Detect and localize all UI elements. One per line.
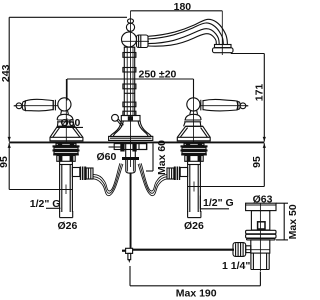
column tube (123, 47, 136, 116)
dia 60 label column base (97, 147, 125, 163)
column base bell (109, 121, 153, 140)
lift rod coupler (122, 248, 133, 263)
dimension Max 50 (276, 203, 299, 240)
svg-text:1 1/4": 1 1/4" (222, 260, 250, 272)
svg-text:250 ±20: 250 ±20 (139, 69, 177, 81)
drain tailpiece (251, 253, 269, 269)
drain body (251, 240, 270, 253)
svg-text:Ø60: Ø60 (97, 151, 117, 163)
spout arm connector (137, 35, 149, 48)
dia 26 bracket left (58, 211, 78, 232)
right escutcheon cone (177, 126, 210, 141)
right valve centerline (193, 79, 195, 143)
left handle ball (58, 98, 71, 111)
lift rod (130, 173, 132, 249)
deck line (9, 141, 264, 143)
left valve centerline tick (65, 185, 67, 195)
spout outlet centerline (221, 11, 223, 55)
dimension 171 right (231, 54, 266, 142)
pivot centerline (245, 249, 270, 251)
dimension 243 left (0, 17, 127, 141)
left handle dome (57, 114, 75, 126)
left escutcheon cone (50, 126, 83, 141)
spout aerator bell (213, 45, 234, 53)
svg-text:95: 95 (251, 156, 263, 168)
svg-text:1/2" G: 1/2" G (203, 197, 234, 209)
svg-text:Max 190: Max 190 (176, 287, 217, 299)
svg-text:171: 171 (254, 84, 266, 102)
column centerline (130, 11, 132, 167)
junction ball centerline (122, 40, 149, 42)
svg-text:180: 180 (174, 1, 192, 13)
svg-text:243: 243 (0, 64, 12, 82)
pivot nut (233, 243, 251, 257)
pop-up lift knob (112, 114, 124, 126)
drain neck (251, 211, 269, 230)
right valve below deck (181, 143, 208, 212)
drain flange (246, 193, 276, 210)
left valve centerline (65, 79, 67, 143)
svg-text:95: 95 (0, 156, 10, 168)
dimension 95 right (188, 143, 266, 186)
spout junction ball (122, 32, 137, 47)
hose right (138, 163, 167, 195)
drain locknut rings (246, 230, 276, 240)
column shank below deck (114, 144, 147, 174)
drain centerline (259, 203, 261, 271)
left handle lever grip (14, 99, 58, 111)
svg-text:Max 50: Max 50 (287, 204, 299, 239)
dia 60 label left handle (57, 117, 84, 129)
hose left (94, 163, 123, 195)
spout tube (148, 19, 227, 46)
column finial small ball (128, 19, 134, 23)
left hose port (72, 167, 93, 181)
column collar (121, 116, 140, 122)
1/2 G label right (200, 196, 233, 210)
left valve below deck (53, 143, 80, 212)
svg-text:Ø26: Ø26 (184, 220, 204, 232)
dimension 95 left (0, 143, 72, 189)
1/2 G label left (30, 198, 61, 210)
dia 26 bracket right (184, 211, 204, 232)
right valve centerline tick (193, 182, 195, 192)
column finial ball (126, 23, 134, 31)
right handle neck and dome (184, 111, 202, 127)
left handle neck (61, 111, 69, 115)
dimension Max 190 (130, 266, 260, 299)
right handle ball (187, 98, 200, 111)
horizontal pop-up rod (133, 249, 234, 251)
dimension 250 +-20 (67, 69, 194, 101)
svg-text:Ø26: Ø26 (58, 220, 78, 232)
right hose port (167, 167, 188, 181)
dimension Max 60 (139, 140, 168, 175)
svg-text:Max 60: Max 60 (156, 140, 168, 175)
dimension 180 top (131, 1, 223, 13)
right handle lever grip (200, 99, 249, 110)
